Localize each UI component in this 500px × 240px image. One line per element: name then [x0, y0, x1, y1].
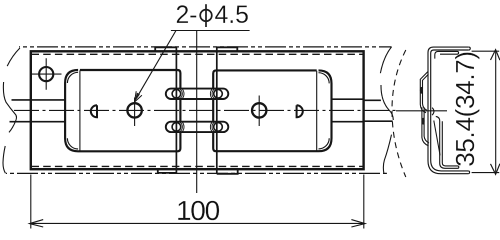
- D-hole right: [297, 105, 303, 117]
- pin circle top-left: [172, 90, 181, 99]
- side view bracket profile inner: [431, 50, 469, 171]
- rail hook tab bottom-right: [217, 169, 238, 174]
- left emboss inner corner arc bottom: [67, 138, 78, 149]
- corner hole: [39, 67, 53, 81]
- side view spring bulge at web: [432, 108, 434, 116]
- side view spring diagonal: [434, 121, 440, 156]
- pin circle bottom-right: [214, 123, 223, 132]
- side dim extension bottom: [472, 172, 500, 174]
- phantom rail top edge: [19, 46, 392, 48]
- side view phantom body arc: [392, 50, 406, 177]
- left emboss outline: [65, 70, 180, 151]
- left emboss inner vertical: [79, 70, 81, 151]
- side view clip lower leg outer: [422, 107, 429, 146]
- rail hook tab top-left: [155, 47, 176, 51]
- left emboss inner corner arc top: [67, 72, 78, 83]
- label phi symbol: [200, 4, 212, 27]
- dim 100 extension line left: [30, 175, 32, 229]
- rail break line right: [380, 47, 393, 174]
- rail hook tab bottom-left: [158, 169, 176, 173]
- right emboss inner corner arc bottom: [319, 138, 330, 149]
- side view clip notch upper: [420, 87, 423, 94]
- middle vertical edge right: [216, 47, 218, 174]
- main horizontal center line: [14, 109, 399, 111]
- dim 100 extension line right: [363, 175, 365, 229]
- center hole right vertical center line: [258, 96, 260, 127]
- center hole left: [127, 103, 141, 117]
- rail mid edge left lower: [10, 121, 66, 123]
- pin circle bottom-left: [172, 123, 181, 132]
- side view clip lower leg inner: [424, 107, 429, 143]
- rail mid edge left upper: [12, 99, 66, 101]
- leader arrowhead: [135, 93, 140, 102]
- rail hidden edge top: [32, 53, 364, 55]
- rail break line left: [3, 48, 20, 173]
- rail mid edge right upper: [332, 99, 381, 100]
- right emboss inner vertical: [316, 71, 318, 151]
- right emboss inner corner arc top: [319, 73, 330, 84]
- side dim arrow top: [491, 50, 500, 61]
- dim 100 arrow right: [351, 220, 365, 227]
- dim 100 line: [31, 222, 364, 224]
- rail hook tab top-right: [217, 47, 238, 51]
- dim 100 arrow left: [30, 220, 44, 227]
- side view center line: [396, 110, 447, 112]
- side view rail flange top: [435, 51, 459, 58]
- side view clip upper hook outer: [420, 72, 428, 113]
- right emboss outline: [213, 70, 331, 151]
- middle vertical edge left: [175, 47, 177, 173]
- side dim arrow bottom: [491, 164, 500, 175]
- center hole right: [252, 103, 266, 117]
- side view clip notch lower: [422, 118, 425, 125]
- slot bottom right crescent arcs: [210, 122, 214, 132]
- corner hole crosshair: [30, 58, 62, 89]
- leader vertical to pins: [196, 31, 198, 194]
- leader diagonal to hole: [136, 31, 176, 99]
- svg-text:2-: 2-: [176, 2, 198, 29]
- phantom rail bottom edge: [6, 172, 387, 174]
- slot top right crescent arcs: [210, 89, 214, 99]
- svg-text:4.5: 4.5: [215, 2, 249, 29]
- D-hole left: [91, 105, 97, 117]
- side view flange end cap bottom: [468, 171, 469, 174]
- rail mid edge right lower: [332, 120, 393, 123]
- rail hidden edge bottom: [32, 165, 364, 167]
- svg-text:100: 100: [176, 195, 220, 226]
- side view bracket profile outer: [428, 47, 469, 174]
- center hole left vertical center line: [134, 98, 136, 127]
- svg-text:35.4(34.7): 35.4(34.7): [450, 51, 480, 167]
- slot bottom (stadium): [166, 122, 229, 132]
- side view clip upper hook inner: [423, 74, 429, 110]
- bracket outer outline: [31, 51, 364, 169]
- side dim line: [495, 52, 497, 173]
- slot top left crescent arcs: [180, 89, 184, 99]
- slot top (stadium): [166, 89, 229, 99]
- pin circle top-right: [214, 90, 223, 99]
- side view rail flange bottom: [436, 116, 459, 168]
- slot bottom left crescent arcs: [180, 122, 184, 132]
- side view flange end cap top: [469, 47, 470, 50]
- leader shoulder under label: [171, 30, 250, 32]
- side dim extension top: [472, 50, 500, 52]
